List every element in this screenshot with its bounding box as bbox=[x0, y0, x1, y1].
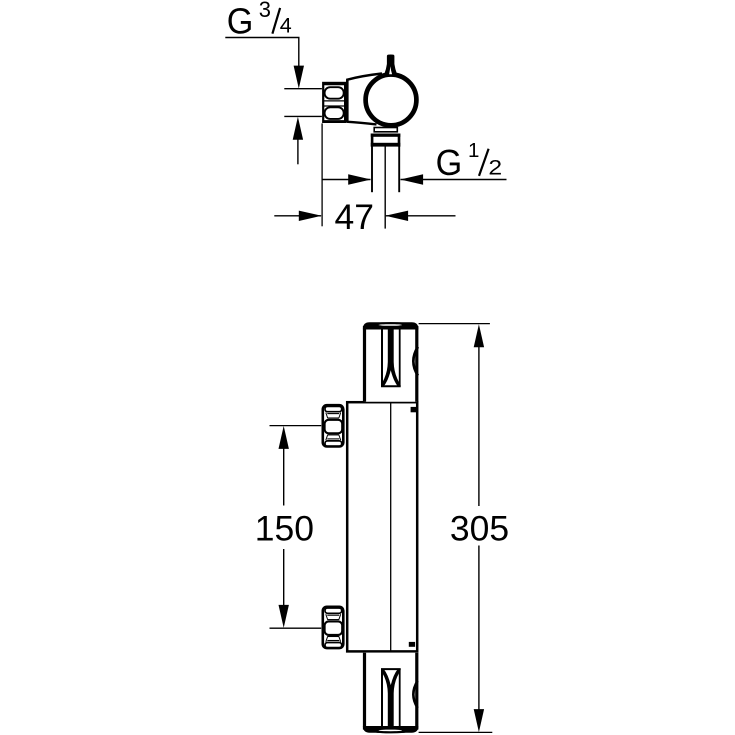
mixer body front view bbox=[347, 402, 417, 651]
collar upper band bbox=[374, 128, 397, 132]
bottom knob grip bbox=[381, 669, 401, 728]
extension line G 3/4 lower bbox=[284, 115, 322, 117]
control knob circle bbox=[366, 75, 417, 126]
svg-text:47: 47 bbox=[335, 197, 375, 237]
dimension 305 bbox=[419, 324, 510, 733]
svg-text:G: G bbox=[227, 2, 254, 42]
body mark upper bbox=[411, 407, 417, 412]
hex nut front view bottom bbox=[323, 607, 344, 648]
stem notch bbox=[389, 66, 392, 74]
svg-text:2: 2 bbox=[488, 155, 502, 179]
label G 3/4 bbox=[227, 0, 292, 42]
extension line G 3/4 upper bbox=[284, 88, 322, 90]
body mark lower bbox=[409, 642, 415, 647]
leader line G 3/4 bbox=[225, 38, 298, 71]
hex nut front view top bbox=[323, 405, 344, 446]
svg-text:3: 3 bbox=[259, 0, 271, 22]
svg-text:150: 150 bbox=[255, 508, 314, 548]
extension line nut face bbox=[321, 123, 323, 226]
stem bbox=[384, 55, 397, 75]
svg-text:4: 4 bbox=[280, 13, 292, 37]
valve body side view bbox=[346, 74, 382, 125]
arrow up G 3/4 bbox=[293, 117, 303, 165]
dimension 47 bbox=[274, 197, 455, 237]
top knob side button bbox=[413, 347, 418, 376]
top knob grip bbox=[381, 327, 401, 386]
arrow down G 3/4 bbox=[294, 66, 304, 89]
shower pipe bbox=[372, 147, 399, 229]
svg-text:1: 1 bbox=[468, 139, 479, 162]
dimension 150 bbox=[255, 426, 321, 629]
bottom knob side button bbox=[413, 681, 417, 708]
hex nut side view bbox=[323, 83, 345, 122]
bottom knob bbox=[363, 653, 419, 734]
svg-text:G: G bbox=[436, 143, 463, 183]
svg-text:305: 305 bbox=[450, 508, 509, 548]
top knob bbox=[363, 322, 419, 402]
dimension G 1/2 bbox=[322, 174, 506, 184]
label G 1/2 bbox=[436, 139, 503, 183]
collar lower band bbox=[371, 134, 401, 147]
